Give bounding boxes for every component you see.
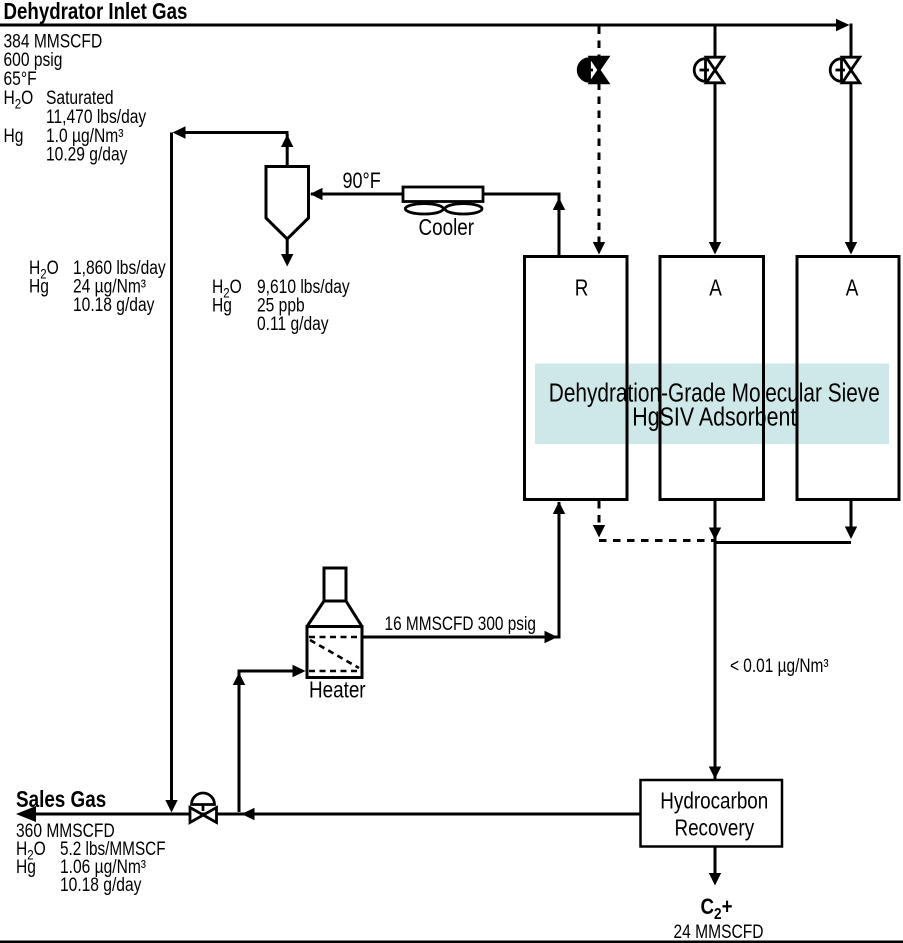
arrow down into recovery box — [709, 767, 721, 780]
svg-text:R: R — [575, 275, 589, 301]
arrow down onto sales line — [165, 800, 177, 813]
svg-text:10.29 g/day: 10.29 g/day — [46, 145, 128, 166]
svg-text:Sales Gas: Sales Gas — [16, 786, 106, 812]
wire junction horizontal solid — [714, 541, 852, 544]
arrow down at junction — [709, 528, 721, 541]
wire regen gas from R top to cooler — [311, 194, 559, 255]
arrow right into heater — [293, 665, 306, 677]
heater H1 — [307, 568, 366, 702]
arrow down A2 — [845, 527, 857, 540]
arrow up into overhead line — [281, 135, 293, 148]
wire recovery bottoms C2+ — [714, 847, 717, 874]
wire separator overhead — [176, 133, 289, 167]
valve V4 control valve on sales line — [190, 793, 217, 823]
wire dashed R bottoms to junction — [598, 501, 601, 526]
wire branch to adsorber A1 — [714, 25, 717, 242]
wire heater inlet from sales line — [239, 671, 303, 812]
arrow dashed into R top — [593, 242, 605, 255]
svg-text:90°F: 90°F — [343, 168, 381, 193]
svg-text:Recovery: Recovery — [674, 815, 754, 841]
arrow up into R bottom — [553, 502, 565, 515]
svg-text:Hydrocarbon: Hydrocarbon — [660, 788, 768, 814]
label sales gas data — [16, 821, 166, 896]
svg-text:A: A — [846, 275, 859, 301]
wire branch to adsorber A2 — [850, 24, 853, 243]
separator S1 — [266, 167, 309, 240]
valve V1 closed (filled) on regen line — [578, 57, 608, 83]
bottom border — [0, 941, 903, 943]
svg-text:Dehydrator Inlet Gas: Dehydrator Inlet Gas — [4, 0, 188, 24]
arrow up toward cooler corner — [553, 198, 565, 211]
svg-text:Hg: Hg — [212, 295, 232, 316]
wire separator bottoms — [286, 239, 289, 254]
hydrocarbon recovery unit — [641, 780, 783, 847]
svg-text:10.18 g/day: 10.18 g/day — [73, 295, 155, 316]
svg-text:Hg: Hg — [29, 276, 49, 297]
svg-text:HgSIV Adsorbent: HgSIV Adsorbent — [632, 404, 796, 432]
vessel A2 — [797, 257, 899, 500]
label separator drain data — [212, 277, 350, 335]
svg-text:Saturated: Saturated — [46, 88, 114, 109]
arrow dashed down — [593, 525, 605, 538]
svg-text:11,470 lbs/day: 11,470 lbs/day — [46, 107, 147, 128]
svg-text:65°F: 65°F — [4, 69, 37, 90]
arrow down separator drain — [281, 254, 293, 267]
arrow into A2 top — [845, 242, 857, 255]
wire sales gas line — [21, 813, 640, 816]
banner HgSIV adsorbent bed — [535, 364, 889, 445]
wire recycle downcomer — [170, 133, 173, 802]
valve V2 open on A1 line — [694, 57, 724, 83]
svg-text:Hg: Hg — [4, 126, 24, 147]
wire dashed junction horizontal — [599, 539, 714, 542]
cooler E1 — [403, 187, 483, 240]
wire A1 bottoms to hydrocarbon recovery — [714, 501, 717, 780]
svg-text:< 0.01 µg/Nm³: < 0.01 µg/Nm³ — [730, 656, 829, 677]
svg-text:16 MMSCFD 300 psig: 16 MMSCFD 300 psig — [385, 614, 537, 635]
svg-text:600 psig: 600 psig — [4, 50, 63, 71]
wire header main line — [0, 24, 838, 27]
wire heater outlet to R bottom — [362, 502, 559, 637]
wire dashed regen branch to R — [598, 27, 601, 243]
svg-text:10.18 g/day: 10.18 g/day — [60, 875, 142, 896]
svg-text:0.11 g/day: 0.11 g/day — [257, 314, 329, 335]
svg-text:384 MMSCFD: 384 MMSCFD — [4, 31, 103, 52]
svg-text:Heater: Heater — [309, 676, 366, 702]
arrow left at heater tee — [242, 808, 255, 820]
label inlet data block — [4, 31, 147, 165]
arrow down C2+ — [709, 873, 721, 886]
vessel A1 — [660, 257, 764, 500]
svg-text:A: A — [709, 275, 722, 301]
arrow header right — [836, 19, 850, 32]
arrow left into separator — [310, 188, 323, 200]
arrow into A1 top — [709, 242, 721, 255]
arrow sales gas left end — [16, 806, 36, 822]
arrow right before corner — [545, 631, 558, 643]
svg-text:Hg: Hg — [16, 857, 36, 878]
wire A2 bottoms — [850, 501, 853, 528]
arrow left at overhead corner — [173, 126, 186, 138]
svg-text:Cooler: Cooler — [419, 214, 475, 240]
svg-text:1.0 µg/Nm³: 1.0 µg/Nm³ — [46, 126, 123, 147]
vessel R — [525, 257, 628, 500]
valve V3 open on A2 line — [830, 57, 860, 83]
arrow up at heater corner — [233, 673, 245, 686]
svg-text:24 MMSCFD: 24 MMSCFD — [674, 922, 764, 943]
label separator liquid data — [29, 258, 166, 316]
